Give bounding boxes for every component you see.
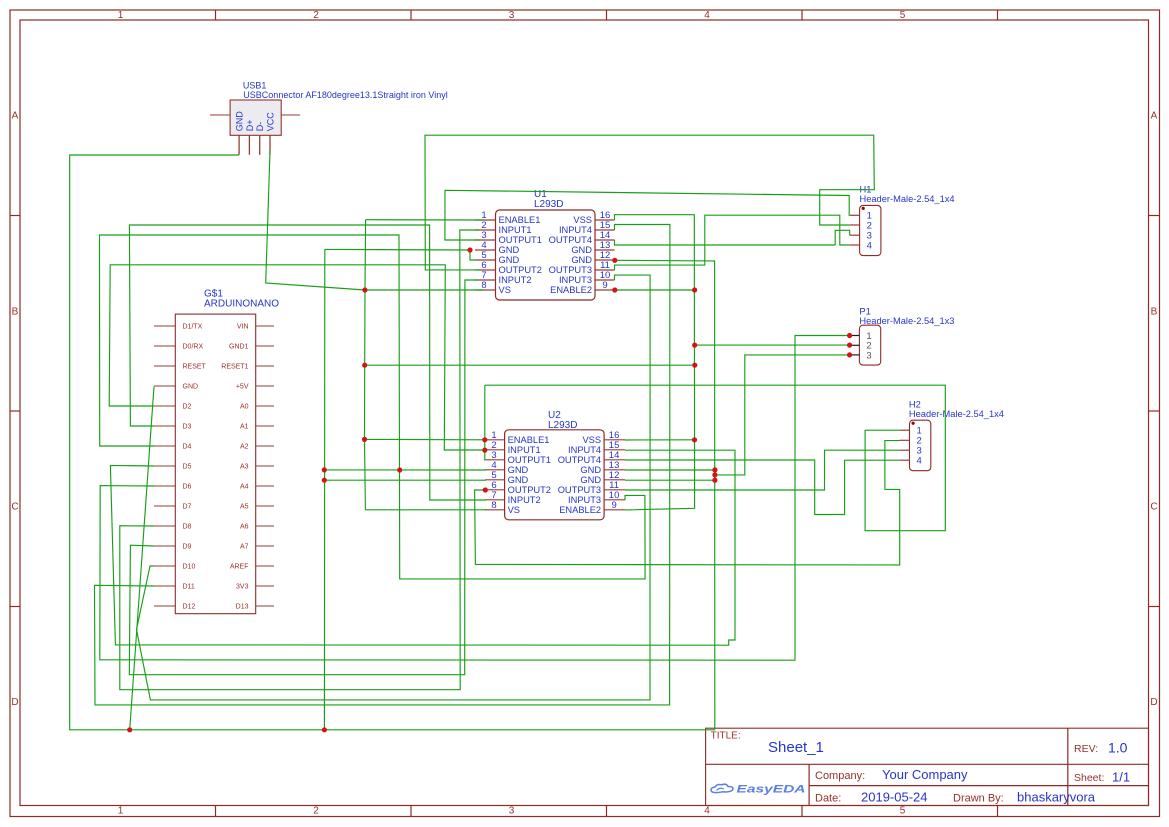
- svg-text:Header-Male-2.54_1x3: Header-Male-2.54_1x3: [859, 316, 954, 326]
- svg-text:3V3: 3V3: [236, 584, 249, 591]
- svg-text:4: 4: [867, 240, 872, 251]
- svg-text:OUTPUT4: OUTPUT4: [558, 455, 601, 465]
- svg-text:1.0: 1.0: [1108, 740, 1128, 756]
- svg-text:Header-Male-2.54_1x4: Header-Male-2.54_1x4: [860, 194, 955, 204]
- svg-text:D2: D2: [183, 404, 192, 411]
- svg-text:D13: D13: [236, 604, 249, 611]
- svg-text:GND: GND: [235, 111, 245, 132]
- svg-text:A6: A6: [240, 524, 249, 531]
- svg-text:USB1: USB1: [243, 81, 267, 91]
- svg-text:D: D: [11, 697, 18, 708]
- svg-text:3: 3: [866, 350, 871, 361]
- svg-text:AREF: AREF: [230, 564, 249, 571]
- svg-text:RESET: RESET: [183, 364, 207, 371]
- svg-text:4: 4: [704, 10, 710, 21]
- svg-text:D6: D6: [183, 484, 192, 491]
- svg-text:EasyEDA: EasyEDA: [737, 784, 806, 796]
- svg-text:1/1: 1/1: [1112, 770, 1130, 785]
- svg-text:ENABLE2: ENABLE2: [559, 505, 601, 515]
- svg-text:L293D: L293D: [548, 420, 577, 431]
- svg-text:D11: D11: [183, 584, 195, 591]
- svg-text:D7: D7: [183, 504, 192, 511]
- svg-text:Company:: Company:: [815, 770, 865, 782]
- svg-text:A5: A5: [240, 504, 249, 511]
- svg-text:5: 5: [900, 10, 906, 21]
- svg-text:GND1: GND1: [229, 344, 249, 351]
- svg-text:INPUT4: INPUT4: [559, 225, 592, 235]
- svg-text:3: 3: [509, 806, 515, 817]
- svg-text:C: C: [11, 502, 18, 513]
- svg-text:D12: D12: [183, 604, 196, 611]
- svg-text:GND: GND: [571, 255, 592, 265]
- svg-text:D9: D9: [183, 544, 192, 551]
- svg-text:TITLE:: TITLE:: [711, 731, 741, 742]
- svg-text:VCC: VCC: [266, 112, 276, 132]
- svg-text:B: B: [12, 306, 19, 317]
- svg-text:Sheet:: Sheet:: [1074, 772, 1104, 784]
- svg-text:GND: GND: [499, 245, 520, 255]
- svg-text:4: 4: [704, 806, 710, 817]
- svg-text:A7: A7: [240, 544, 249, 551]
- svg-text:Drawn By:: Drawn By:: [953, 793, 1004, 805]
- svg-text:4: 4: [917, 456, 922, 467]
- svg-text:ENABLE2: ENABLE2: [550, 285, 592, 295]
- svg-text:8: 8: [491, 500, 496, 511]
- svg-text:GND: GND: [571, 245, 592, 255]
- svg-text:RESET1: RESET1: [221, 364, 248, 371]
- svg-text:GND: GND: [183, 384, 199, 391]
- svg-text:9: 9: [611, 500, 616, 511]
- svg-text:ENABLE1: ENABLE1: [499, 215, 541, 225]
- svg-text:OUTPUT4: OUTPUT4: [549, 235, 592, 245]
- svg-text:INPUT4: INPUT4: [568, 445, 601, 455]
- svg-text:D+: D+: [245, 119, 255, 131]
- svg-text:bhaskaryvora: bhaskaryvora: [1017, 790, 1096, 805]
- svg-text:VSS: VSS: [573, 215, 592, 225]
- svg-text:USBConnector AF180degree13.1St: USBConnector AF180degree13.1Straight iro…: [243, 90, 447, 100]
- svg-text:GND: GND: [499, 255, 520, 265]
- svg-text:1: 1: [118, 10, 124, 21]
- svg-text:INPUT2: INPUT2: [499, 275, 532, 285]
- svg-text:INPUT1: INPUT1: [499, 225, 532, 235]
- svg-text:D: D: [1150, 697, 1157, 708]
- svg-text:GND: GND: [580, 465, 601, 475]
- svg-text:D3: D3: [183, 424, 192, 431]
- svg-text:OUTPUT3: OUTPUT3: [558, 485, 601, 495]
- svg-text:5: 5: [900, 806, 906, 817]
- svg-text:L293D: L293D: [534, 199, 563, 210]
- svg-text:2: 2: [313, 10, 319, 21]
- svg-text:INPUT1: INPUT1: [508, 445, 541, 455]
- svg-text:INPUT3: INPUT3: [559, 275, 592, 285]
- svg-text:A4: A4: [240, 484, 249, 491]
- svg-text:2: 2: [313, 806, 319, 817]
- svg-text:D8: D8: [183, 524, 192, 531]
- svg-text:VSS: VSS: [582, 435, 601, 445]
- svg-text:Date:: Date:: [815, 793, 841, 805]
- svg-text:A3: A3: [240, 464, 249, 471]
- svg-text:A2: A2: [240, 444, 249, 451]
- svg-text:B: B: [1151, 306, 1158, 317]
- svg-text:D1/TX: D1/TX: [183, 324, 203, 331]
- svg-text:INPUT2: INPUT2: [508, 495, 541, 505]
- svg-text:OUTPUT2: OUTPUT2: [499, 265, 542, 275]
- svg-text:Sheet_1: Sheet_1: [768, 739, 824, 756]
- svg-text:Your Company: Your Company: [882, 767, 968, 782]
- svg-text:GND: GND: [508, 475, 529, 485]
- svg-text:A: A: [12, 111, 19, 122]
- svg-text:+5V: +5V: [236, 384, 249, 391]
- svg-text:Header-Male-2.54_1x4: Header-Male-2.54_1x4: [909, 409, 1004, 419]
- svg-text:2019-05-24: 2019-05-24: [861, 790, 928, 805]
- svg-text:GND: GND: [508, 465, 529, 475]
- svg-text:OUTPUT1: OUTPUT1: [499, 235, 542, 245]
- svg-text:ARDUINONANO: ARDUINONANO: [204, 299, 279, 310]
- svg-text:A0: A0: [240, 404, 249, 411]
- svg-text:OUTPUT2: OUTPUT2: [508, 485, 551, 495]
- svg-text:D0/RX: D0/RX: [183, 344, 204, 351]
- svg-text:A: A: [1151, 111, 1158, 122]
- svg-text:D-: D-: [255, 122, 265, 132]
- svg-text:INPUT3: INPUT3: [568, 495, 601, 505]
- svg-text:D5: D5: [183, 464, 192, 471]
- svg-text:GND: GND: [580, 475, 601, 485]
- svg-text:OUTPUT3: OUTPUT3: [549, 265, 592, 275]
- svg-text:C: C: [1150, 502, 1157, 513]
- svg-text:OUTPUT1: OUTPUT1: [508, 455, 551, 465]
- svg-text:1: 1: [118, 806, 124, 817]
- svg-text:ENABLE1: ENABLE1: [508, 435, 550, 445]
- svg-text:D10: D10: [183, 564, 196, 571]
- svg-text:VIN: VIN: [237, 324, 249, 331]
- svg-text:3: 3: [509, 10, 515, 21]
- svg-text:VS: VS: [499, 285, 511, 295]
- svg-text:REV:: REV:: [1074, 743, 1098, 755]
- svg-text:D4: D4: [183, 444, 192, 451]
- svg-text:A1: A1: [240, 424, 249, 431]
- svg-text:VS: VS: [508, 505, 520, 515]
- svg-text:9: 9: [602, 280, 607, 291]
